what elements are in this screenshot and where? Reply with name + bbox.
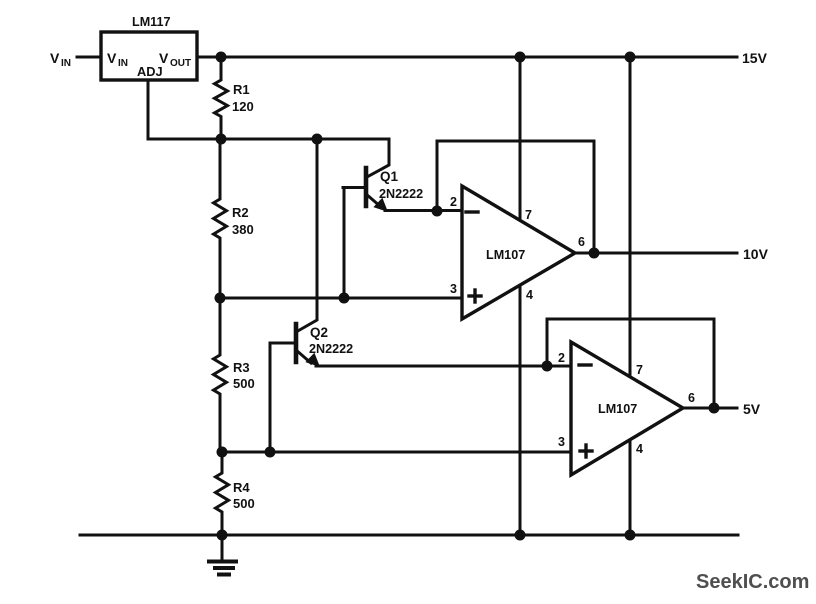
wire U2 pin7 supply drop bbox=[629, 57, 632, 376]
svg-text:500: 500 bbox=[233, 376, 255, 391]
svg-text:500: 500 bbox=[233, 496, 255, 511]
junction dot ADJ node at Q2 collector bbox=[312, 134, 323, 145]
svg-text:R3: R3 bbox=[233, 360, 250, 375]
ground symbol bbox=[209, 535, 236, 575]
svg-text:7: 7 bbox=[636, 363, 643, 377]
label Q1 2N2222 bbox=[379, 169, 423, 201]
junction dot U1 output bbox=[589, 248, 600, 259]
value label R1 120 bbox=[232, 82, 254, 114]
pin number 2 (U2) bbox=[558, 351, 565, 365]
svg-text:R4: R4 bbox=[233, 480, 250, 495]
minus symbol U1 bbox=[466, 210, 478, 213]
svg-text:3: 3 bbox=[450, 282, 457, 296]
svg-text:380: 380 bbox=[232, 222, 254, 237]
op-amp U2 LM107 bbox=[571, 342, 683, 475]
junction dot at R1 top bbox=[216, 52, 227, 63]
svg-text:OUT: OUT bbox=[170, 58, 191, 69]
junction dot 15V rail at x630 bbox=[625, 52, 636, 63]
junction dot Q2 base node bbox=[265, 447, 276, 458]
svg-text:IN: IN bbox=[61, 58, 71, 69]
pin number 2 (U1) bbox=[450, 195, 457, 209]
svg-text:R1: R1 bbox=[233, 82, 250, 97]
svg-text:7: 7 bbox=[525, 208, 532, 222]
label Q2 2N2222 bbox=[309, 325, 353, 356]
plus symbol U2 bbox=[580, 445, 592, 457]
svg-text:5V: 5V bbox=[743, 401, 761, 417]
svg-text:15V: 15V bbox=[742, 50, 768, 66]
svg-text:V: V bbox=[50, 50, 60, 66]
svg-text:4: 4 bbox=[636, 442, 643, 456]
resistor R1 bbox=[215, 57, 228, 139]
pin number 7 (U1) bbox=[525, 208, 532, 222]
wire Q2 emitter to opamp U2 inverting input bbox=[316, 365, 571, 368]
net label 5V bbox=[743, 401, 761, 417]
pin label VIN (inside box) bbox=[107, 50, 128, 69]
svg-text:LM107: LM107 bbox=[598, 402, 637, 416]
pin number 3 (U1) bbox=[450, 282, 457, 296]
wire U1 feedback loop bbox=[437, 141, 594, 253]
svg-text:Q2: Q2 bbox=[310, 325, 328, 340]
svg-text:2: 2 bbox=[558, 351, 565, 365]
value label R3 500 bbox=[233, 360, 255, 391]
wire Q1 emitter to opamp U1 inverting input bbox=[385, 209, 462, 212]
value label R2 380 bbox=[232, 205, 254, 237]
svg-text:ADJ: ADJ bbox=[137, 64, 163, 79]
net label 10V bbox=[743, 246, 769, 262]
wire U2 output to 5V bbox=[683, 407, 737, 410]
svg-text:2: 2 bbox=[450, 195, 457, 209]
svg-text:R2: R2 bbox=[232, 205, 249, 220]
wire U1 pin4 to ground rail bbox=[519, 286, 522, 535]
svg-text:Q1: Q1 bbox=[380, 169, 399, 184]
svg-text:IN: IN bbox=[118, 58, 128, 69]
wire ADJ pin drop bbox=[147, 80, 150, 139]
junction dot ground at U1 pin4 bbox=[515, 530, 526, 541]
pin number 6 (U2) bbox=[688, 391, 695, 405]
node VIN label bbox=[50, 50, 71, 69]
wire U1 output to 10V bbox=[575, 252, 737, 255]
junction dot U1 inverting input bbox=[432, 206, 443, 217]
junction dot U2 inverting input bbox=[542, 361, 553, 372]
wire +input node of U2 (R3/R4 junction to pin 3) bbox=[222, 451, 571, 454]
svg-text:4: 4 bbox=[526, 288, 533, 302]
wire U2 feedback loop bbox=[547, 319, 714, 408]
svg-text:6: 6 bbox=[688, 391, 695, 405]
op-amp U1 LM107 bbox=[462, 186, 575, 319]
watermark SeekIC.com bbox=[696, 571, 809, 593]
junction dot ground at R4 bbox=[217, 530, 228, 541]
pin number 4 (U1) bbox=[526, 288, 533, 302]
wire Q2 base drop to R3/R4 node bbox=[269, 343, 272, 452]
svg-text:LM107: LM107 bbox=[486, 248, 525, 262]
pin label ADJ (inside box) bbox=[137, 64, 163, 79]
pin number 6 (U1) bbox=[578, 235, 585, 249]
wire Q1 collector corner bbox=[367, 139, 389, 177]
resistor R2 bbox=[214, 139, 227, 298]
svg-text:3: 3 bbox=[558, 435, 565, 449]
pin number 7 (U2) bbox=[636, 363, 643, 377]
pin label VOUT (inside box) bbox=[159, 50, 191, 69]
svg-text:10V: 10V bbox=[743, 246, 769, 262]
svg-text:120: 120 bbox=[232, 99, 254, 114]
junction dot at ADJ node / R1 bottom bbox=[216, 134, 227, 145]
pin number 4 (U2) bbox=[636, 442, 643, 456]
wire ADJ node horizontal bbox=[148, 138, 389, 141]
wire Q1 base drop to +input node bbox=[343, 188, 346, 299]
junction dot R3-R4 bbox=[217, 447, 228, 458]
svg-text:SeekIC.com: SeekIC.com bbox=[696, 571, 809, 593]
regulator U3 LM117 box bbox=[101, 32, 197, 80]
junction dot R2-R3 bbox=[215, 293, 226, 304]
label LM107 (U2) bbox=[598, 402, 637, 416]
value label R4 500 bbox=[233, 480, 255, 511]
svg-text:6: 6 bbox=[578, 235, 585, 249]
transistor Q2 bbox=[270, 324, 320, 367]
pin number 3 (U2) bbox=[558, 435, 565, 449]
value label LM117 bbox=[132, 15, 171, 29]
resistor R3 bbox=[214, 298, 227, 452]
junction dot U2 output bbox=[709, 403, 720, 414]
wire U1 pin7 supply drop bbox=[519, 57, 522, 220]
wire U2 pin4 to ground rail bbox=[629, 441, 632, 535]
svg-text:LM117: LM117 bbox=[132, 15, 171, 29]
svg-text:2N2222: 2N2222 bbox=[309, 342, 353, 356]
wire 15V top rail bbox=[197, 56, 737, 59]
junction dot ground at U2 pin4 bbox=[625, 530, 636, 541]
transistor Q1 bbox=[343, 168, 388, 212]
wire VIN input lead bbox=[77, 56, 101, 59]
minus symbol U2 bbox=[579, 363, 591, 366]
junction dot Q1 base node bbox=[339, 293, 350, 304]
label LM107 (U1) bbox=[486, 248, 525, 262]
junction dot 15V rail at x520 bbox=[515, 52, 526, 63]
resistor R4 bbox=[216, 452, 229, 535]
wire +input node of U1 (R2/R3 junction to pin 3) bbox=[220, 297, 462, 300]
wire Q2 collector up to ADJ node bbox=[296, 139, 317, 332]
net label 15V bbox=[742, 50, 768, 66]
svg-text:V: V bbox=[107, 50, 117, 66]
plus symbol U1 bbox=[469, 290, 481, 302]
svg-text:2N2222: 2N2222 bbox=[379, 187, 423, 201]
wire ground rail bbox=[80, 534, 738, 537]
